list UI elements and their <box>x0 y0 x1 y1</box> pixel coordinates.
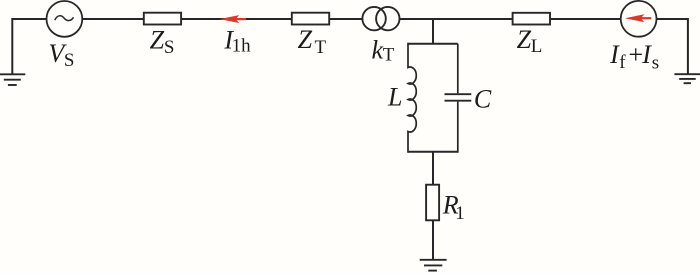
svg-text:S: S <box>164 37 175 58</box>
svg-text:1h: 1h <box>232 36 252 57</box>
svg-text:T: T <box>315 37 327 58</box>
wire current source to right ground <box>657 19 688 74</box>
current arrow I1h (red, pointing left) <box>219 15 246 23</box>
label If+Is <box>609 40 659 74</box>
svg-text:Z: Z <box>298 25 313 54</box>
resistor ZS box <box>144 13 181 25</box>
label kT <box>372 35 395 65</box>
wire transformer to ZL through node <box>400 18 513 20</box>
label R1 <box>442 190 465 224</box>
wire ZL to current source <box>550 18 621 20</box>
wire R1 to ground <box>432 220 434 259</box>
svg-text:L: L <box>531 36 543 57</box>
wire ZT to transformer <box>329 18 362 20</box>
wire left horizontal to AC source <box>12 19 46 74</box>
AC source VS circle <box>47 1 83 37</box>
transformer kT circles <box>362 7 385 30</box>
svg-text:s: s <box>652 53 659 74</box>
label ZS <box>150 26 175 59</box>
current source arrow (red, pointing left) <box>625 14 652 22</box>
ground (left) <box>0 74 25 85</box>
wire VS to ZS <box>82 18 144 20</box>
wire node down to LC block <box>432 19 434 44</box>
svg-text:f: f <box>619 52 626 73</box>
capacitor C branch wires <box>457 44 459 94</box>
svg-text:C: C <box>474 85 492 114</box>
current source circle <box>621 1 657 37</box>
inductor L branch <box>408 43 416 153</box>
LC block top wire <box>408 43 458 45</box>
label I1h <box>223 26 251 57</box>
svg-text:Z: Z <box>150 26 165 55</box>
label ZL <box>517 25 543 57</box>
LC block bottom wire <box>408 151 458 153</box>
resistor ZL box <box>513 13 550 25</box>
ground (right) <box>674 74 700 83</box>
label VS <box>48 39 74 71</box>
svg-text:L: L <box>387 82 402 111</box>
svg-text:I: I <box>641 40 652 69</box>
svg-text:Z: Z <box>517 25 532 54</box>
svg-text:T: T <box>383 44 395 65</box>
wire LC to R1 <box>432 152 434 185</box>
svg-text:S: S <box>64 50 75 71</box>
sine symbol <box>55 16 74 21</box>
wire ZS to ZT (arrow I1h overlays) <box>181 18 292 20</box>
svg-text:1: 1 <box>455 203 465 224</box>
svg-text:k: k <box>372 35 384 64</box>
label ZT <box>298 25 327 58</box>
resistor R1 box <box>426 185 439 221</box>
capacitor C plates <box>445 93 472 95</box>
resistor ZT box <box>292 13 329 25</box>
ground (bottom middle) <box>420 260 447 271</box>
